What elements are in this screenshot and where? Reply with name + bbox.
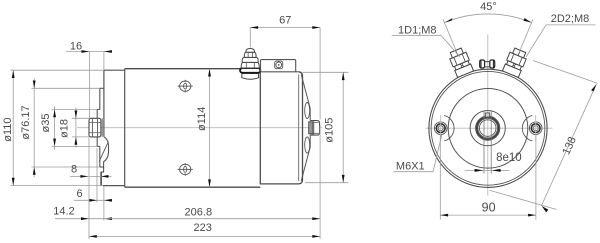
shaft nut o18 <box>89 118 101 137</box>
washer behind nut <box>101 118 103 137</box>
dim 8 <box>70 163 112 177</box>
cap slot ellipse top <box>305 103 310 119</box>
end cap outline <box>260 72 302 185</box>
label 1D1;M8 <box>392 25 460 57</box>
dim 14.2 <box>53 138 112 240</box>
dim 8e10 <box>465 152 522 172</box>
top rotation stop bolt <box>480 60 495 68</box>
outer rim circle <box>429 69 547 187</box>
svg-text:ø105: ø105 <box>324 118 336 143</box>
key slot lines <box>483 111 485 174</box>
svg-text:ø35: ø35 <box>40 114 52 133</box>
svg-text:14.2: 14.2 <box>53 206 74 218</box>
dim o114 <box>196 69 211 188</box>
label 2D2;M8 <box>526 13 596 57</box>
shaft bore circle <box>479 120 496 137</box>
svg-text:2D2;M8: 2D2;M8 <box>551 13 590 25</box>
yoke screw bottom <box>178 163 193 176</box>
right mounting hole M6 <box>529 115 542 141</box>
dim 223 <box>89 222 320 238</box>
hub seal ring inner <box>478 118 498 138</box>
dim 90 <box>440 135 536 220</box>
dim o110 <box>2 70 104 185</box>
motor yoke body <box>125 69 261 188</box>
dim o76.17 <box>20 78 100 177</box>
hub seal ring outer <box>476 116 500 140</box>
terminal stud side view <box>240 49 260 80</box>
centerline horizontal <box>426 127 553 129</box>
left ear boss <box>444 115 454 141</box>
svg-text:1D1;M8: 1D1;M8 <box>398 25 437 37</box>
flange face circle <box>448 89 528 169</box>
shaft stub rear <box>309 121 320 136</box>
svg-text:ø114: ø114 <box>196 107 208 131</box>
brush cover block <box>260 60 299 72</box>
svg-text:M6X1: M6X1 <box>396 160 425 172</box>
svg-text:45°: 45° <box>480 1 497 13</box>
dim 6 <box>74 148 112 202</box>
block torx screw <box>275 61 283 69</box>
keyway notch <box>485 113 489 117</box>
centerline motor axis <box>77 127 322 129</box>
yoke screw top <box>178 80 193 93</box>
svg-text:206.8: 206.8 <box>185 207 213 219</box>
svg-text:223: 223 <box>194 222 212 234</box>
dim o105 <box>303 72 349 182</box>
dim 67 <box>250 15 320 120</box>
right terminal stud 2D2 <box>502 47 528 78</box>
flange bell lower profile <box>99 137 108 186</box>
bearing boss o35 <box>97 110 100 147</box>
hub boss circle o35 <box>470 111 505 146</box>
end cap cone slants <box>301 75 310 182</box>
svg-text:ø110: ø110 <box>2 117 14 141</box>
dim 16 <box>66 41 112 119</box>
inner rim circle <box>431 71 545 185</box>
flange housing outline <box>103 69 125 188</box>
svg-text:ø18: ø18 <box>59 119 71 138</box>
label M6X1 leader <box>394 135 442 173</box>
dim 206.8 <box>104 125 320 239</box>
end cap inner face line <box>298 75 300 182</box>
svg-text:8e10: 8e10 <box>496 152 522 164</box>
svg-text:67: 67 <box>279 15 291 27</box>
left terminal stud 1D1 <box>448 47 474 78</box>
svg-text:8: 8 <box>71 163 77 175</box>
right ear boss <box>522 115 532 141</box>
svg-text:90: 90 <box>482 201 496 215</box>
svg-text:ø76.17: ø76.17 <box>20 105 32 139</box>
svg-text:6: 6 <box>76 188 82 200</box>
dim 138 <box>490 61 598 213</box>
hub seal ring dark <box>477 117 499 139</box>
svg-text:16: 16 <box>70 41 82 53</box>
cap slot ellipse bottom <box>305 137 310 153</box>
shaft spigot o76.17 <box>100 88 104 167</box>
dim o35 <box>40 106 97 150</box>
centerline vertical <box>487 35 489 196</box>
dim 45 degrees <box>443 1 533 52</box>
left mounting hole M6 <box>434 115 447 141</box>
dim o18 <box>59 108 90 148</box>
